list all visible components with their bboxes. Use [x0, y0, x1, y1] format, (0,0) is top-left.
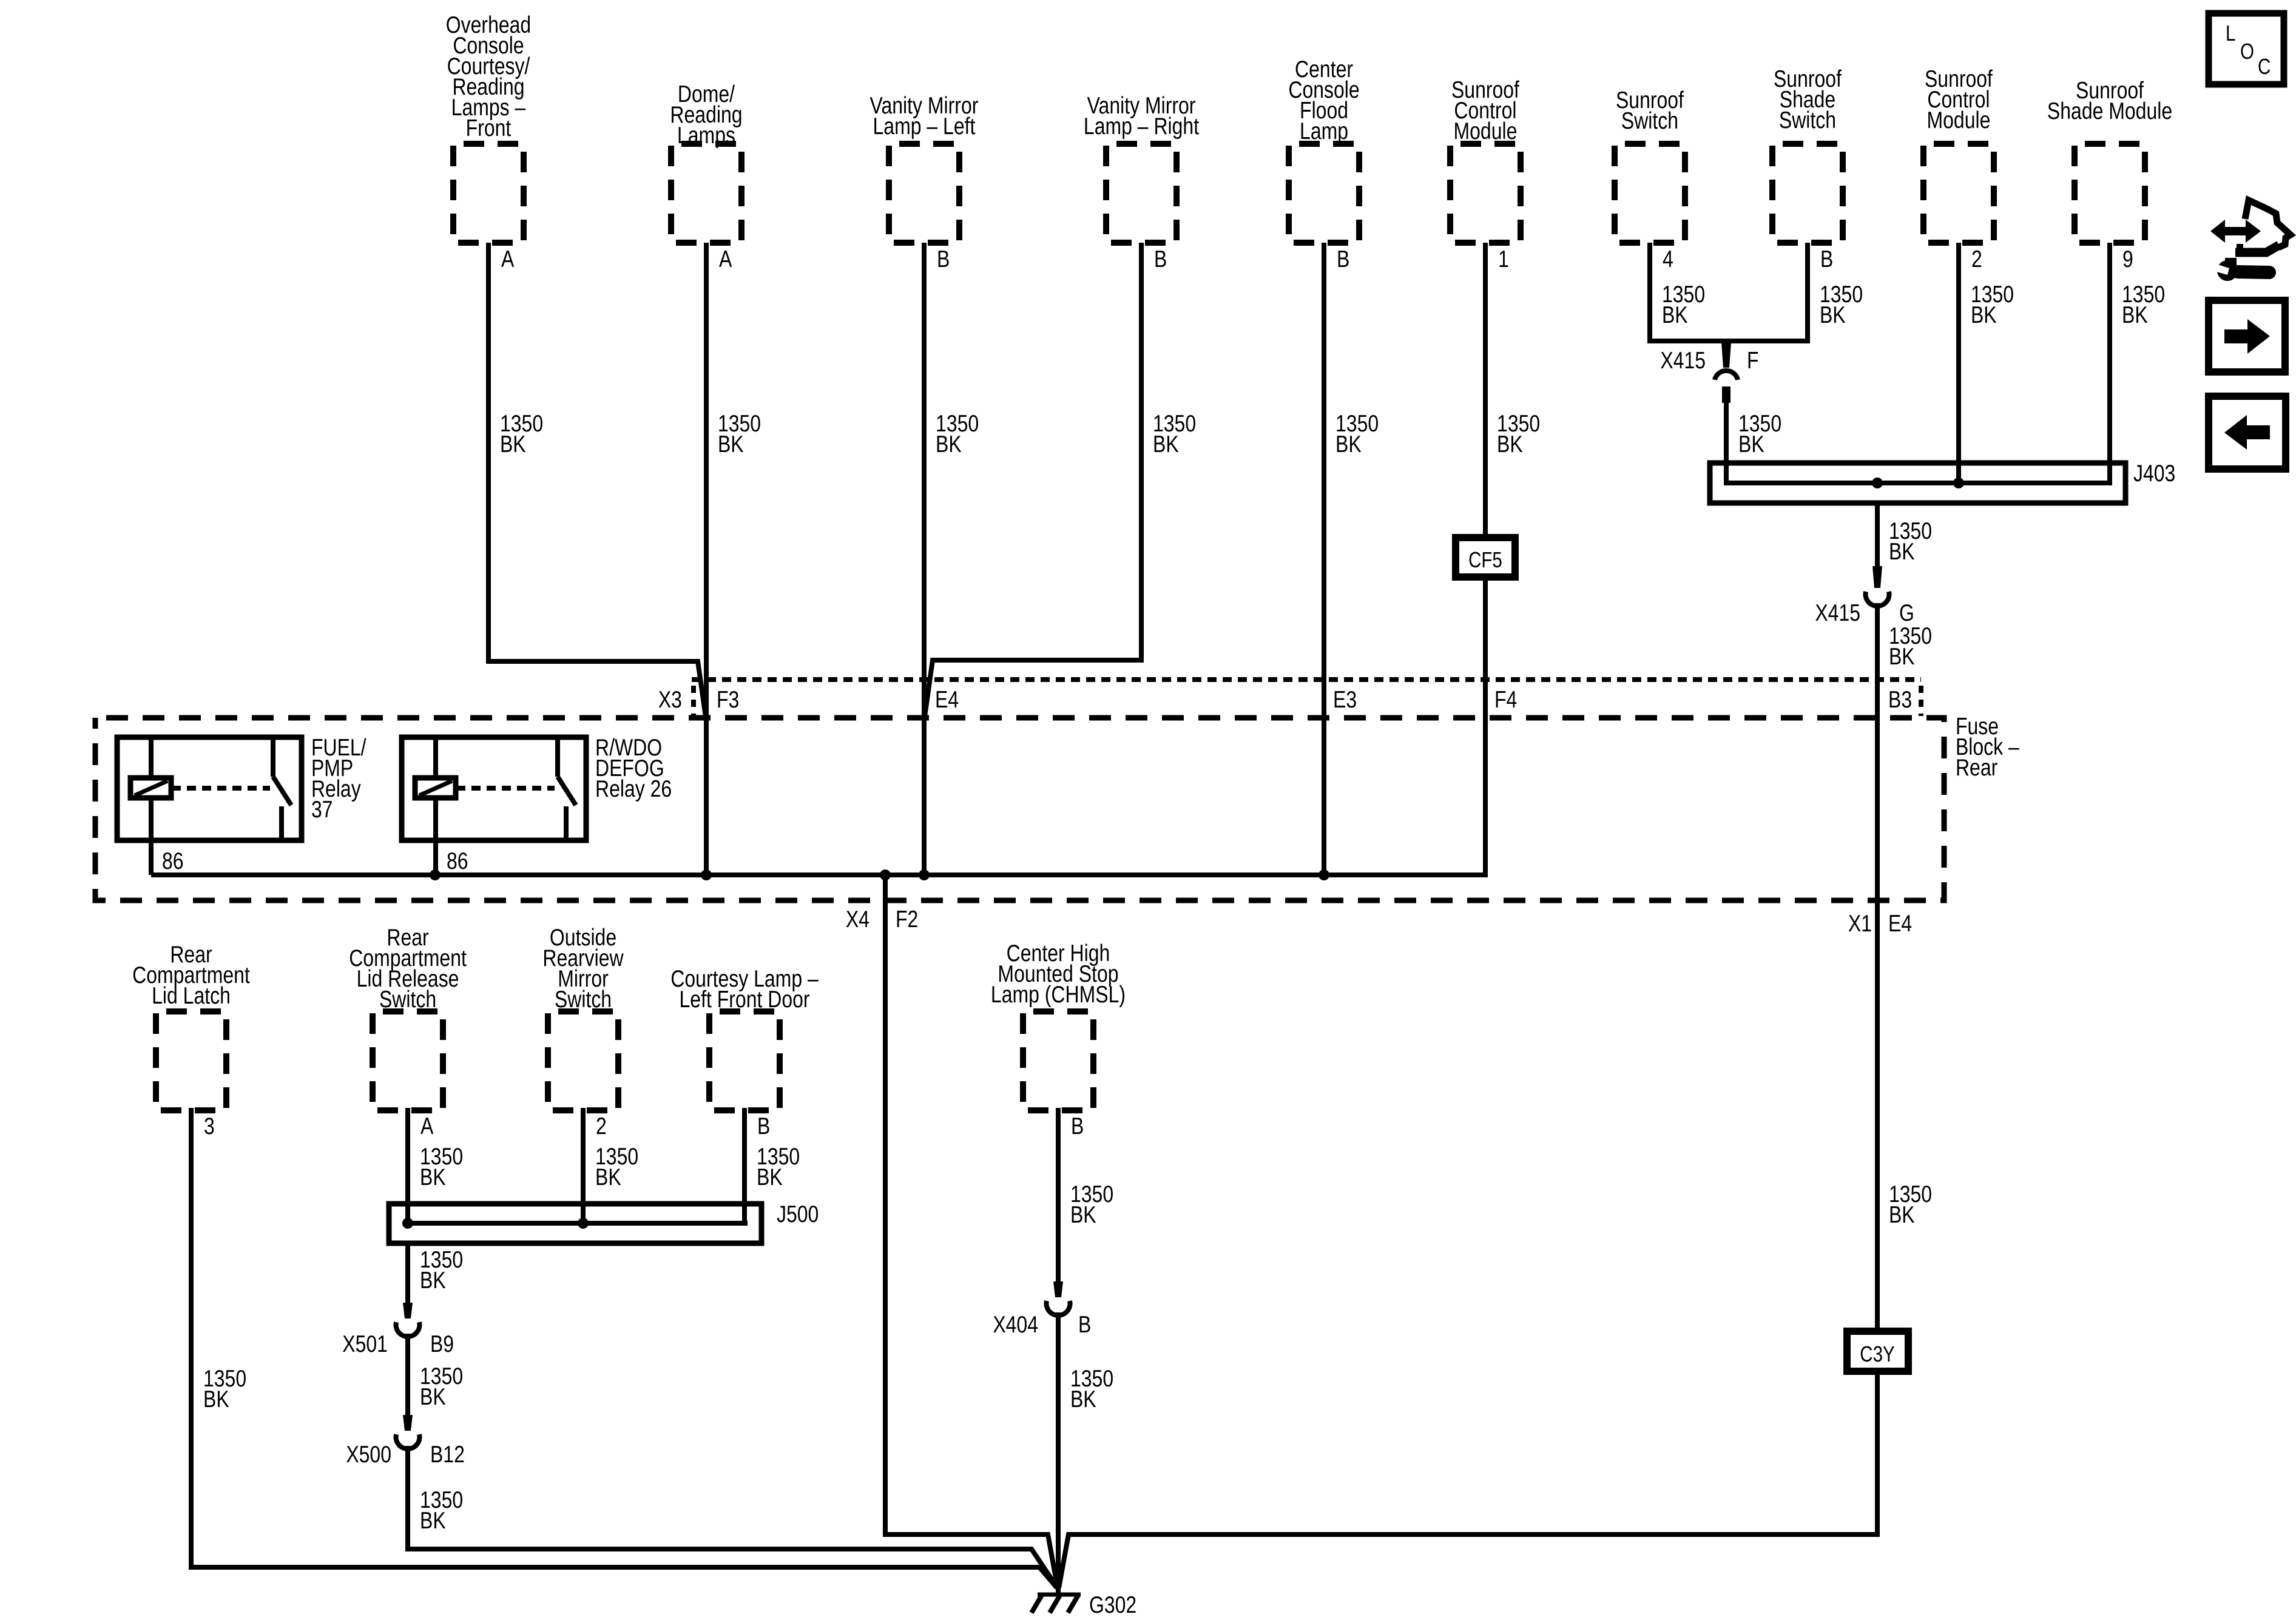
svg-text:BK: BK [1070, 1386, 1096, 1413]
wire 1350 BK (overhead console) [500, 410, 543, 457]
wire sunroof shade switch to X415 joint [1726, 243, 1808, 341]
svg-text:Rear: Rear [1956, 754, 1997, 781]
svg-text:CF5: CF5 [1468, 547, 1502, 572]
connector center high mounted stop lamp CHMSL [991, 940, 1126, 1110]
wire CHMSL down to X404 [1056, 1108, 1061, 1284]
svg-text:B12: B12 [430, 1441, 465, 1468]
svg-text:F2: F2 [896, 906, 918, 933]
svg-text:BK: BK [936, 431, 962, 457]
LOC legend box [2209, 13, 2284, 84]
wire 1350 BK (X415 F to J403) [1738, 410, 1781, 457]
connector vanity mirror lamp - left [870, 92, 979, 243]
svg-text:Front: Front [466, 115, 512, 141]
wire 1350 BK (dome/reading) [718, 410, 761, 457]
wire vanity left down to fuse block bus [922, 243, 927, 875]
junction dot J403 pin2 [1953, 478, 1964, 488]
wire X4-F2 drop to ground run [885, 875, 1058, 1588]
svg-text:X500: X500 [346, 1441, 391, 1468]
svg-text:B: B [757, 1113, 770, 1139]
connector sunroof control module [1450, 76, 1521, 243]
ground symbol G302 [1032, 1595, 1081, 1613]
svg-text:X415: X415 [1815, 599, 1860, 626]
svg-text:BK: BK [420, 1164, 446, 1190]
svg-text:Shade Module: Shade Module [2047, 98, 2172, 124]
svg-text:Relay 26: Relay 26 [595, 775, 672, 802]
splice internal bus J403 [1726, 463, 2110, 483]
connector center console flood lamp [1288, 56, 1359, 243]
wire sunroof control module pin1 to CF5 [1483, 243, 1488, 540]
connector rear compartment lid latch [132, 941, 250, 1110]
svg-text:X501: X501 [342, 1331, 388, 1357]
connector outside rearview mirror switch [542, 924, 623, 1110]
svg-text:B: B [1071, 1113, 1084, 1139]
svg-text:X4: X4 [846, 906, 869, 933]
connector sunroof shade module [2047, 77, 2172, 243]
svg-text:B: B [1078, 1311, 1091, 1338]
wire X415 G down through fuse block [1875, 603, 1880, 1331]
svg-text:E4: E4 [935, 686, 959, 713]
wire 1350 BK (below J500) [420, 1246, 463, 1294]
svg-text:BK: BK [757, 1164, 783, 1190]
wire C3Y down and left to ground [1059, 1371, 1877, 1588]
inline connector X415 pin F (blade) [1721, 342, 1731, 368]
svg-text:L: L [2226, 21, 2235, 45]
connector dome/reading lamps [670, 81, 742, 243]
inline connector X415 pin F (socket arc) [1715, 371, 1738, 380]
svg-text:BK: BK [420, 1507, 446, 1534]
connector sunroof shade switch [1772, 66, 1843, 243]
svg-text:BK: BK [718, 431, 744, 457]
svg-text:BK: BK [1662, 302, 1688, 328]
svg-text:X404: X404 [993, 1311, 1038, 1338]
svg-text:BK: BK [1889, 1201, 1915, 1228]
junction dot J403 output [1872, 478, 1883, 488]
inline connector X415 pin F (lower blade) [1722, 387, 1730, 403]
junction dot X4-F2 drop [880, 869, 891, 880]
inline connector X415 pin G [1872, 566, 1882, 588]
svg-text:B: B [1337, 246, 1349, 272]
wire sunroof shade module into J403 [2107, 243, 2112, 463]
connector vanity mirror lamp - right [1084, 92, 1199, 243]
junction dot relay2 86 [430, 869, 441, 880]
wire J500 down to X501 [405, 1243, 410, 1306]
connector sunroof switch [1615, 87, 1685, 243]
svg-text:Module: Module [1454, 118, 1518, 144]
splice internal bus J500 [408, 1221, 748, 1226]
fuse block - rear (dashed border) [95, 718, 1944, 900]
svg-text:BK: BK [1335, 431, 1362, 457]
wire X415 F down to splice J403 [1724, 400, 1729, 466]
svg-text:C: C [2258, 54, 2271, 78]
wire courtesy lamp into J500 [742, 1108, 747, 1223]
relay R/WDO DEFOG Relay 26 [402, 737, 586, 875]
wire X500 down to ground run [408, 1446, 1057, 1587]
svg-text:Lamp – Right: Lamp – Right [1084, 113, 1199, 140]
svg-text:BK: BK [595, 1164, 621, 1190]
arrow-left legend box [2209, 396, 2286, 469]
svg-text:Lamp: Lamp [1300, 118, 1348, 144]
wire 1350 BK (sunroof switch) [1662, 281, 1705, 328]
svg-text:BK: BK [1153, 431, 1179, 457]
wire 1350 BK (vanity left) [936, 410, 979, 457]
label relay FUEL/PMP Relay 37 name [311, 734, 366, 823]
connector rear compartment lid release switch [349, 924, 467, 1110]
svg-text:Switch: Switch [1621, 107, 1678, 134]
svg-text:J403: J403 [2133, 460, 2175, 487]
wire X404 down to ground [1056, 1312, 1061, 1593]
wire 1350 BK (sunroof control module pin1) [1497, 410, 1540, 457]
svg-text:BK: BK [1070, 1201, 1096, 1228]
svg-text:E3: E3 [1333, 686, 1357, 713]
wire center console flood down to bus [1322, 243, 1326, 875]
junction dot dome wire [701, 869, 712, 880]
svg-text:Lamp – Left: Lamp – Left [873, 113, 976, 140]
svg-text:G302: G302 [1089, 1592, 1136, 1617]
svg-text:BK: BK [1738, 431, 1764, 457]
relay FUEL/PMP Relay 37 [117, 737, 302, 875]
svg-text:A: A [501, 246, 515, 272]
wire 1350 BK (right trunk below fuse block) [1889, 1181, 1932, 1228]
label relay R/WDO DEFOG Relay 26 name [595, 734, 672, 802]
svg-text:B9: B9 [430, 1331, 454, 1357]
wire sunroof control module pin2 into J403 [1956, 243, 1961, 483]
wire dome/reading down to fuse block bus [704, 243, 709, 875]
wire 1350 BK (sunroof shade switch) [1820, 281, 1863, 328]
svg-text:BK: BK [1497, 431, 1523, 457]
wire 1350 BK (courtesy lamp) [757, 1143, 800, 1190]
svg-text:BK: BK [203, 1386, 229, 1413]
svg-text:B3: B3 [1888, 686, 1912, 713]
svg-text:O: O [2240, 39, 2254, 63]
wire 1350 BK (above B3) [1889, 623, 1932, 670]
svg-text:37: 37 [311, 796, 333, 823]
svg-text:2: 2 [596, 1113, 607, 1139]
wire 1350 BK (between X501 X500) [420, 1363, 463, 1410]
junction dot flood E3 wire [1319, 869, 1329, 880]
svg-text:Lamp (CHMSL): Lamp (CHMSL) [991, 981, 1126, 1008]
svg-text:Lid Latch: Lid Latch [152, 982, 231, 1009]
junction dot J500 mirror [578, 1218, 589, 1229]
arrow-right legend box [2209, 300, 2285, 372]
dotted connector line X3 row [692, 677, 1921, 682]
ground bus inside fuse block [151, 873, 1485, 877]
wire lid latch down to ground run [191, 1108, 1057, 1588]
svg-text:C3Y: C3Y [1860, 1342, 1894, 1366]
wire mirror switch to J500 [581, 1108, 586, 1223]
svg-text:Module: Module [1927, 107, 1991, 133]
wire 1350 BK (below J403) [1889, 518, 1932, 565]
wire 1350 BK (sunroof control module pin2) [1971, 281, 2014, 328]
junction dot J500 output [402, 1218, 413, 1229]
svg-text:4: 4 [1663, 246, 1673, 272]
label Fuse Block - Rear [1956, 713, 2019, 781]
connector sunroof control module 2 [1923, 66, 1994, 243]
svg-text:A: A [420, 1113, 434, 1139]
body-repair icon (double arrow, panel outline, wrench) [2210, 200, 2291, 281]
wire sunroof switch to X415 joint [1650, 243, 1726, 341]
wire 1350 BK (mirror switch) [595, 1143, 638, 1190]
inline connector X404 pin B [1053, 1281, 1063, 1297]
splice pack J403 [1710, 463, 2125, 503]
svg-text:86: 86 [162, 848, 184, 874]
wire 1350 BK (vanity right) [1153, 410, 1196, 457]
wire 1350 BK (below X404) [1070, 1365, 1113, 1413]
inline connector X501 pin B9 [403, 1303, 413, 1318]
svg-text:BK: BK [1889, 538, 1915, 565]
dotted stub left (X3) [691, 686, 696, 716]
wire lid release switch to J500 [405, 1108, 410, 1223]
splice pack J500 [389, 1204, 761, 1243]
junction dot vanity E4 wire [919, 869, 930, 880]
svg-text:BK: BK [1889, 643, 1915, 670]
svg-text:Left Front Door: Left Front Door [680, 986, 810, 1013]
svg-text:B: B [937, 246, 950, 272]
wire overhead console to junction [488, 243, 706, 721]
wire CF5 down to bus (F4) [1483, 577, 1488, 877]
svg-text:BK: BK [420, 1383, 446, 1410]
svg-text:2: 2 [1971, 246, 1982, 272]
wire 1350 BK (CHMSL) [1070, 1181, 1113, 1228]
connector overhead console courtesy/reading lamps - front [446, 12, 531, 243]
svg-text:J500: J500 [777, 1201, 819, 1227]
svg-text:9: 9 [2122, 246, 2133, 272]
wire 1350 BK (lid release) [420, 1143, 463, 1190]
wire 1350 BK (sunroof shade module) [2122, 281, 2165, 328]
svg-text:BK: BK [420, 1267, 446, 1294]
svg-text:F3: F3 [717, 686, 739, 713]
svg-text:E4: E4 [1888, 910, 1912, 937]
fuse C3Y [1847, 1331, 1908, 1371]
svg-text:B: B [1820, 246, 1833, 272]
inline connector X500 pin B12 [403, 1415, 413, 1431]
svg-text:3: 3 [204, 1113, 215, 1139]
svg-text:X415: X415 [1660, 347, 1706, 374]
dotted stub right (B3) [1919, 686, 1923, 716]
svg-text:B: B [1154, 246, 1167, 272]
svg-text:BK: BK [2122, 302, 2148, 328]
svg-text:A: A [719, 246, 732, 272]
wire 1350 BK (center console flood) [1335, 410, 1379, 457]
connector courtesy lamp - left front door [670, 965, 819, 1110]
wire 1350 BK (lid latch) [203, 1365, 246, 1413]
svg-text:BK: BK [500, 431, 526, 457]
wire vanity right to junction [924, 243, 1141, 721]
wire 1350 BK (below X500) [420, 1487, 463, 1534]
svg-text:86: 86 [447, 848, 468, 874]
fuse CF5 [1456, 538, 1515, 577]
svg-text:X1: X1 [1848, 910, 1872, 937]
wire J403 down to X415 G [1875, 503, 1880, 569]
svg-text:1: 1 [1498, 246, 1509, 272]
svg-text:BK: BK [1820, 302, 1846, 328]
svg-text:F4: F4 [1494, 686, 1517, 713]
wire X501 to X500 [405, 1334, 410, 1418]
svg-text:Switch: Switch [1779, 107, 1836, 133]
svg-text:F: F [1747, 347, 1759, 374]
svg-text:BK: BK [1971, 302, 1997, 328]
svg-text:X3: X3 [658, 686, 682, 713]
